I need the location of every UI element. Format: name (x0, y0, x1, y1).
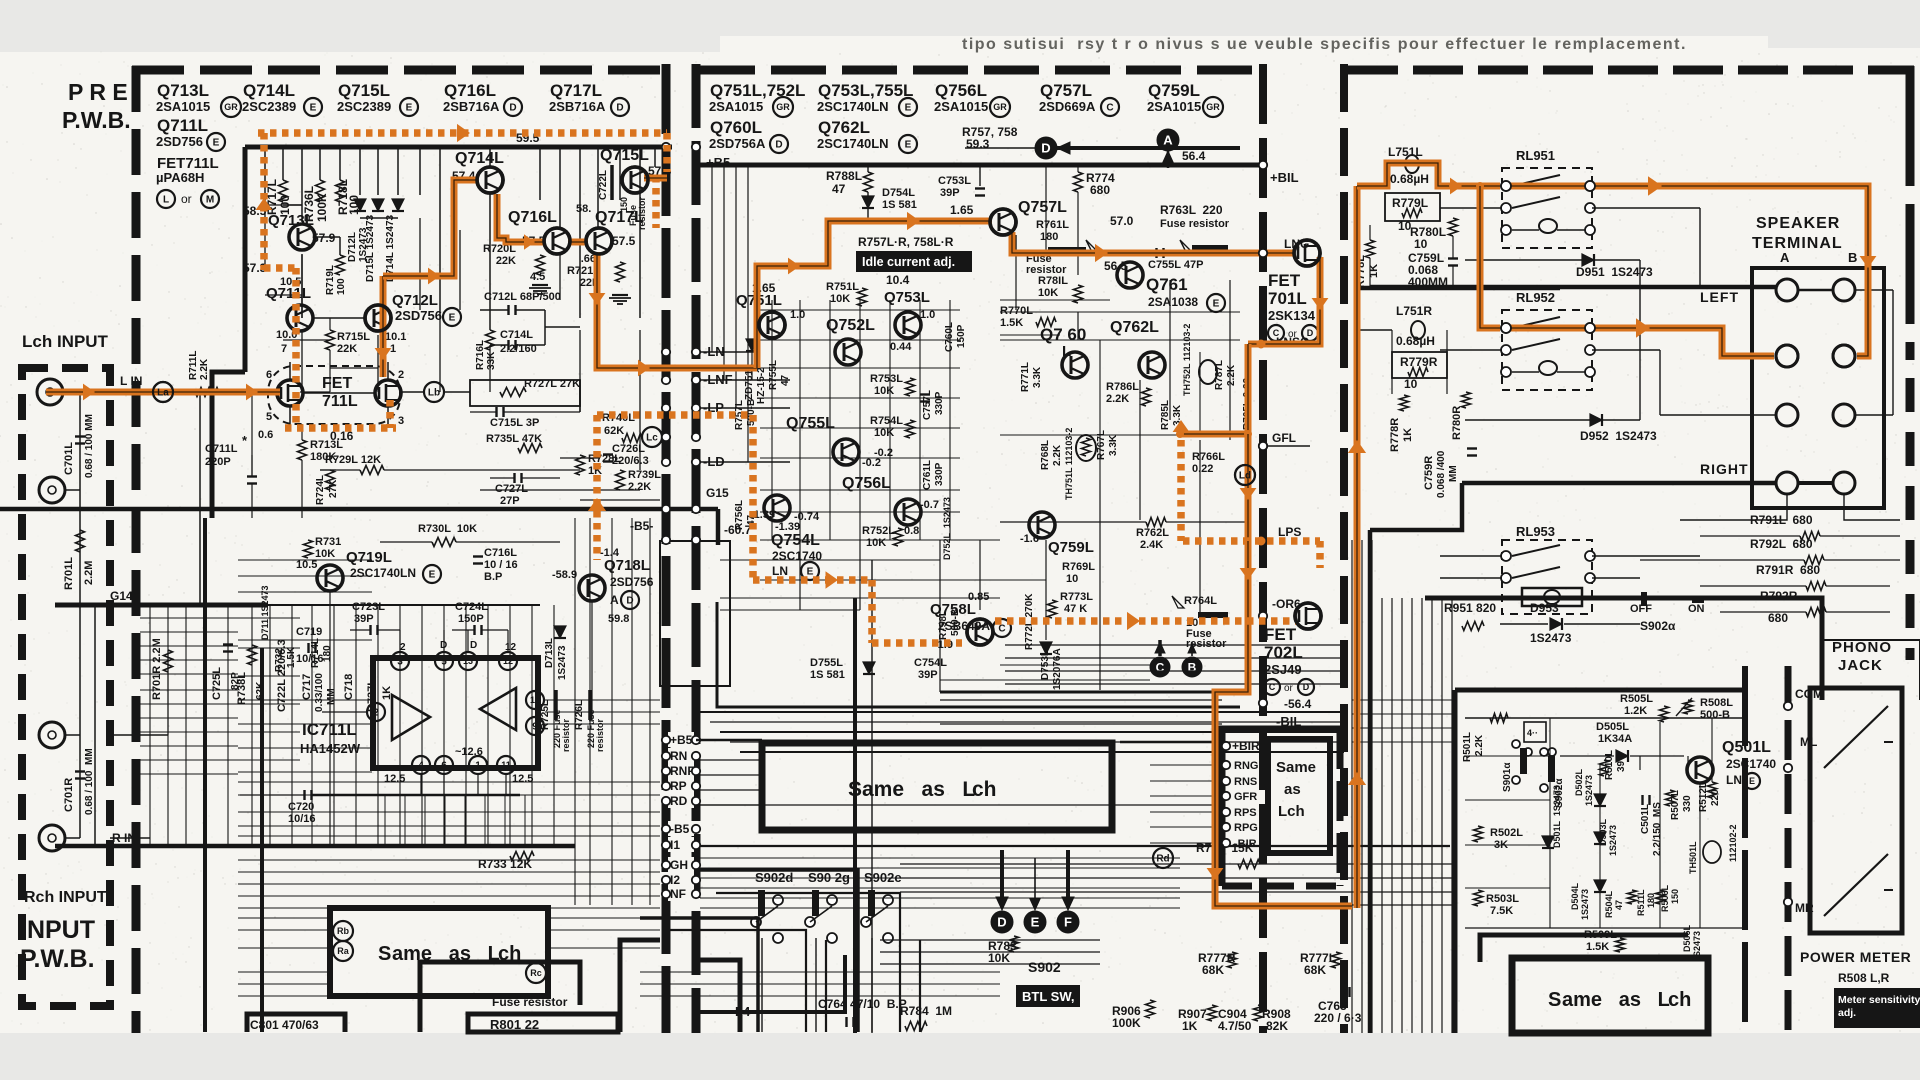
PRE P.W.B. border top (132, 66, 660, 75)
jack L1 (37, 379, 63, 405)
orange arrow mid1 (788, 258, 800, 275)
svg-text:0.68 / 100 MM: 0.68 / 100 MM (84, 748, 95, 815)
svg-text:6: 6 (441, 761, 447, 772)
wire (700, 897, 1180, 899)
svg-text:P.W.B.: P.W.B. (20, 945, 95, 973)
svg-text:2SA1015: 2SA1015 (934, 99, 988, 114)
orange path to right edge (1594, 186, 1868, 356)
RL952 contact restamp (1501, 323, 1511, 333)
wire (1369, 225, 1371, 240)
svg-text:+B5: +B5 (670, 733, 693, 747)
wire (700, 857, 1180, 859)
F terminal (1057, 911, 1079, 933)
svg-text:59.8: 59.8 (608, 613, 629, 625)
svg-text:0.44: 0.44 (890, 341, 912, 353)
transistor Q718L (579, 575, 605, 601)
svg-text:C724L: C724L (455, 601, 488, 613)
svg-text:C: C (998, 624, 1005, 635)
svg-text:NF: NF (670, 887, 686, 901)
svg-text:BTL SW,: BTL SW, (1022, 989, 1074, 1004)
svg-text:R508L: R508L (1700, 697, 1733, 709)
pin 13 (459, 652, 477, 670)
terminal M2 (1833, 404, 1855, 426)
svg-text:57.0: 57.0 (1110, 214, 1134, 228)
svg-text:I2: I2 (670, 873, 680, 887)
transistor Q756L (895, 499, 921, 525)
svg-text:1S2473: 1S2473 (1530, 631, 1572, 645)
orange FET dotted bottom (285, 424, 396, 432)
svg-text:R726L: R726L (574, 700, 585, 730)
terminal L2 (1833, 279, 1855, 301)
FET702L ring restamp (1295, 603, 1321, 629)
svg-text:Q714L: Q714L (455, 150, 504, 167)
svg-text:R730L 10K: R730L 10K (418, 523, 477, 535)
relay blade RL953a (1512, 545, 1560, 556)
wire (1639, 756, 1641, 770)
wire thick (1368, 530, 1373, 1033)
wire pin2 (322, 711, 367, 713)
phono frame (1700, 598, 1822, 700)
svg-text:Q751L,752L: Q751L,752L (710, 81, 805, 100)
pin 3 (391, 652, 409, 670)
svg-text:as: as (1284, 781, 1301, 798)
wire (149, 605, 151, 846)
svg-text:D754L: D754L (882, 187, 915, 199)
svg-text:E: E (213, 138, 220, 149)
svg-text:C718: C718 (343, 674, 355, 700)
diode D712L (354, 199, 366, 211)
svg-text:C754L: C754L (914, 657, 947, 669)
wire (333, 605, 335, 846)
transistor Q759L (1029, 512, 1055, 538)
svg-text:2SC1740LN: 2SC1740LN (817, 136, 889, 151)
svg-text:59.3: 59.3 (966, 137, 990, 151)
svg-text:Q757L: Q757L (1018, 199, 1067, 216)
svg-text:0.068 /400: 0.068 /400 (1436, 450, 1447, 498)
wire thick (1370, 483, 1462, 530)
svg-text:resistor: resistor (637, 196, 647, 230)
svg-text:2SD756: 2SD756 (395, 308, 442, 323)
svg-text:3.3K: 3.3K (1108, 434, 1119, 456)
wire (539, 147, 541, 200)
switch S901a (1520, 748, 1527, 774)
wire -BIL rail (940, 691, 1246, 694)
resistor R730L (432, 538, 456, 547)
meter bus (1785, 666, 1792, 1033)
svg-text:R724L: R724L (315, 475, 326, 505)
transistor Q715L (622, 167, 648, 193)
wire (282, 147, 284, 180)
orange arrow RL952 (1636, 318, 1650, 338)
Same as Lch box right (1268, 739, 1330, 853)
svg-text:-1.4: -1.4 (600, 547, 620, 559)
svg-text:Idle current adj.: Idle current adj. (862, 255, 955, 269)
wire (397, 147, 399, 195)
orange input line (46, 389, 280, 396)
trim 4-11 (1524, 722, 1546, 742)
pin 11 (497, 756, 515, 774)
wire FET drains (289, 362, 291, 380)
B terminal (1182, 657, 1202, 677)
resistor R726L (588, 690, 592, 720)
node (662, 536, 670, 544)
svg-text:RPG: RPG (1234, 822, 1258, 834)
svg-text:R740L: R740L (602, 412, 635, 424)
svg-text:27P: 27P (500, 495, 520, 507)
svg-text:C727L: C727L (495, 483, 528, 495)
svg-text:47: 47 (780, 374, 791, 386)
svg-text:C801 470/63: C801 470/63 (250, 1018, 319, 1032)
svg-text:5: 5 (441, 657, 447, 668)
svg-text:C720: C720 (288, 801, 314, 813)
wires PRE verticals long (264, 205, 266, 268)
wire (283, 204, 302, 206)
svg-text:47: 47 (832, 182, 846, 196)
svg-text:C711L: C711L (205, 443, 238, 455)
svg-text:Rc: Rc (530, 968, 542, 978)
jack R2 (39, 825, 65, 851)
D terminal (991, 911, 1013, 933)
svg-text:S902: S902 (1028, 959, 1061, 975)
wire (199, 392, 201, 605)
svg-text:2SD756A: 2SD756A (709, 136, 766, 151)
svg-text:0.68µH: 0.68µH (1390, 172, 1429, 186)
orange path GFL junction (1180, 431, 1248, 438)
svg-text:Q755L: Q755L (786, 415, 835, 432)
wire (1077, 312, 1079, 340)
orange arrow Q716 (524, 234, 535, 249)
switch blades S902 (756, 906, 778, 922)
svg-text:R713L: R713L (310, 439, 343, 451)
wire (238, 871, 660, 873)
svg-text:G15: G15 (706, 486, 729, 500)
svg-text:R801 22: R801 22 (490, 1017, 539, 1032)
resistor R716L (486, 330, 495, 350)
svg-text:2.2K: 2.2K (628, 481, 651, 493)
svg-text:A: A (610, 593, 619, 607)
wire (871, 560, 873, 1033)
svg-text:180: 180 (1646, 893, 1656, 908)
svg-text:Fuse resistor: Fuse resistor (1160, 218, 1230, 230)
svg-text:R768L: R768L (1040, 440, 1051, 470)
svg-text:220/6.3: 220/6.3 (612, 455, 649, 467)
wire thick (260, 648, 264, 1032)
svg-text:0.68 / 100 MM: 0.68 / 100 MM (84, 414, 95, 478)
svg-text:D713L: D713L (544, 638, 555, 668)
svg-text:10: 10 (1066, 573, 1078, 585)
svg-text:3: 3 (398, 415, 404, 427)
Q712L ring restamp (365, 305, 391, 331)
svg-text:B.P: B.P (484, 571, 502, 583)
terminal R1 (1776, 472, 1798, 494)
wire (1077, 165, 1079, 172)
svg-text:Ld: Ld (1239, 471, 1251, 482)
svg-text:1S 581: 1S 581 (810, 669, 845, 681)
svg-text:150P: 150P (956, 324, 967, 348)
svg-text:2SJ49: 2SJ49 (1264, 662, 1302, 677)
wires left-center grid (140, 617, 238, 619)
svg-text:57.9: 57.9 (312, 231, 336, 245)
svg-text:2SC2389: 2SC2389 (337, 99, 391, 114)
svg-text:701L: 701L (1268, 289, 1307, 308)
svg-text:2SA1015: 2SA1015 (156, 99, 210, 114)
wire (443, 605, 445, 846)
svg-text:or: or (1284, 683, 1294, 694)
svg-text:330P: 330P (934, 462, 945, 486)
svg-text:711L: 711L (322, 393, 358, 410)
wire (227, 605, 229, 846)
svg-text:3.3K: 3.3K (1032, 366, 1043, 388)
D terminal mid (1035, 137, 1057, 159)
svg-text:E: E (1031, 915, 1040, 930)
svg-text:500-B: 500-B (1700, 709, 1730, 721)
wires mid right mesh (1000, 311, 1240, 313)
svg-text:RN: RN (670, 749, 687, 763)
svg-text:1: 1 (475, 761, 481, 772)
transistor Q760L (1062, 352, 1088, 378)
orange arrow dotted FET702 (1127, 612, 1140, 630)
svg-text:D501L 1S2473: D501L 1S2473 (1552, 785, 1562, 848)
svg-text:2.2K: 2.2K (199, 358, 210, 380)
resistor R713L (298, 440, 307, 460)
svg-text:2SC2389: 2SC2389 (242, 99, 296, 114)
svg-text:R756L: R756L (734, 500, 745, 530)
label E arrow (1034, 858, 1036, 905)
svg-text:6: 6 (266, 369, 272, 381)
svg-text:Lch INPUT: Lch INPUT (22, 332, 109, 351)
speaker wires down (1680, 494, 1787, 520)
svg-text:TERMINAL: TERMINAL (1752, 235, 1843, 252)
node LNG restamp (1259, 249, 1267, 257)
svg-text:R715L: R715L (337, 331, 370, 343)
svg-text:10.4: 10.4 (886, 273, 910, 287)
svg-text:R778R: R778R (1389, 418, 1401, 452)
Q501L transistor (1687, 757, 1713, 783)
svg-text:0.33/100: 0.33/100 (314, 673, 325, 712)
terminal M1 (1776, 404, 1798, 426)
svg-text:R762L: R762L (1136, 527, 1169, 539)
svg-text:22K: 22K (337, 343, 357, 355)
orange branch RL952 (1480, 186, 1500, 328)
svg-text:µPA68H: µPA68H (156, 170, 204, 185)
svg-text:FET: FET (322, 375, 352, 392)
wire RL952 row2 (1440, 349, 1502, 351)
PM mesh (1465, 755, 1550, 757)
orange path Ld down (1245, 434, 1252, 541)
wire thick (418, 960, 423, 1032)
orange path LNSO down (1245, 344, 1252, 434)
input P.W.B. border (22, 368, 110, 1006)
resistor R783 (1010, 936, 1019, 952)
svg-text:0.68µH: 0.68µH (1396, 334, 1435, 348)
svg-text:C719: C719 (296, 626, 322, 638)
svg-text:E: E (905, 103, 912, 114)
svg-text:Lc: Lc (646, 433, 658, 444)
wire (359, 147, 361, 195)
wire (597, 147, 599, 227)
wire (700, 907, 1180, 909)
resistor R733 (510, 852, 534, 861)
svg-text:GR: GR (224, 102, 238, 112)
orange return vertical (1354, 186, 1361, 908)
orange path Q712 to Q714 (380, 276, 387, 377)
svg-text:220P: 220P (205, 456, 231, 468)
wire (559, 147, 561, 227)
orange path RL952 to A (1594, 328, 1774, 356)
svg-text:C717: C717 (301, 674, 313, 700)
wires bottom of mid (880, 939, 1100, 941)
svg-text:39: 39 (1616, 760, 1627, 772)
svg-text:68K: 68K (1202, 963, 1224, 977)
svg-text:E: E (1749, 776, 1755, 786)
svg-text:INPUT: INPUT (20, 916, 95, 944)
svg-text:C764 47/10 B.P: C764 47/10 B.P (818, 997, 907, 1011)
RL951 contact restamp (1501, 181, 1511, 191)
svg-text:D951 1S2473: D951 1S2473 (1576, 265, 1653, 279)
wire (291, 605, 293, 846)
svg-text:R727L 27K: R727L 27K (524, 378, 580, 390)
wire (269, 605, 271, 846)
svg-text:C716L: C716L (484, 547, 517, 559)
orange dotted LPS down (1316, 541, 1324, 568)
svg-text:D: D (775, 140, 782, 151)
wire (1000, 521, 1146, 523)
svg-text:R761L: R761L (1036, 219, 1069, 231)
Rb node (333, 921, 353, 941)
resistor R778L (1366, 240, 1375, 258)
wire FET sources (289, 406, 291, 428)
svg-text:2SC1740: 2SC1740 (772, 549, 822, 563)
svg-text:Q716L: Q716L (444, 81, 496, 100)
svg-text:D505L: D505L (1596, 721, 1629, 733)
wire (965, 147, 1035, 149)
node RN (668, 748, 694, 763)
pin 5 (435, 652, 453, 670)
transistor Q752L (835, 339, 861, 365)
svg-text:330: 330 (1682, 795, 1693, 812)
svg-text:LN: LN (772, 564, 788, 578)
label E Q711L (207, 133, 225, 151)
capacitor C755L (1155, 248, 1157, 258)
svg-text:RNS: RNS (1234, 776, 1257, 788)
svg-text:RD: RD (670, 794, 688, 808)
svg-text:180: 180 (322, 645, 333, 662)
wire thick L4 area (700, 955, 845, 1012)
svg-text:702L: 702L (1264, 643, 1303, 662)
wire (65, 489, 80, 491)
svg-text:150P: 150P (458, 613, 484, 625)
svg-text:1S2473: 1S2473 (1608, 825, 1618, 856)
wire (487, 605, 489, 846)
orange arrow to FET701 (1095, 244, 1108, 262)
svg-text:RNG: RNG (1234, 760, 1258, 772)
wire (302, 392, 375, 394)
label E Q754L (801, 562, 819, 580)
svg-text:L: L (163, 195, 169, 206)
svg-text:10K: 10K (1038, 287, 1058, 299)
resistor R724L (326, 470, 335, 490)
wire (238, 825, 660, 827)
capacitor C726L (603, 453, 613, 455)
svg-text:4: 4 (418, 761, 424, 772)
svg-text:E: E (449, 313, 456, 324)
svg-text:Rb: Rb (337, 926, 349, 936)
transistor Q713L (289, 224, 315, 250)
svg-text:F: F (1064, 915, 1072, 930)
svg-text:R701R 2.2M: R701R 2.2M (151, 638, 163, 700)
svg-text:5: 5 (266, 411, 272, 423)
PRE inner frame top (245, 145, 672, 150)
wire (238, 794, 660, 796)
orange dotted Q754 loop top (597, 411, 753, 419)
IC711 right wires (545, 699, 660, 701)
orange arrow up left (256, 198, 273, 210)
svg-text:9: 9 (532, 722, 538, 733)
ground rail G15 (0, 507, 718, 512)
svg-text:10K: 10K (874, 427, 894, 439)
relay fuse box 953 (1522, 588, 1582, 606)
svg-text:D755L: D755L (810, 657, 843, 669)
svg-text:R769L: R769L (1062, 561, 1095, 573)
wire mesh right mid (1005, 644, 1340, 646)
svg-text:R731: R731 (315, 536, 341, 548)
svg-text:R711L: R711L (188, 351, 199, 380)
output stage box (717, 602, 1240, 707)
C terminal (1150, 657, 1170, 677)
svg-text:R714L: R714L (310, 638, 321, 668)
svg-text:4.7/50: 4.7/50 (1218, 1019, 1252, 1033)
diode D714L (392, 199, 404, 211)
svg-text:D504L: D504L (1570, 882, 1580, 910)
Rc node (526, 963, 546, 983)
LEFT line (1370, 285, 1776, 290)
Same as Lch box bottom-right (1512, 958, 1708, 1033)
node (662, 348, 670, 356)
svg-text:Q715L: Q715L (338, 81, 390, 100)
svg-text:LEFT: LEFT (1700, 289, 1739, 305)
transistor Q757L mid (990, 209, 1016, 235)
FET 701L symbol (1294, 240, 1320, 266)
transistor Q762L (1139, 352, 1165, 378)
wire (319, 147, 321, 180)
svg-text:R753L: R753L (870, 373, 903, 385)
wire (301, 424, 303, 440)
svg-text:Q711L: Q711L (157, 116, 208, 135)
svg-text:D: D (509, 103, 516, 114)
PM frame left (1453, 690, 1458, 1033)
orange arrow mid2 (907, 212, 920, 230)
node (662, 433, 670, 441)
diode D713L (554, 626, 566, 638)
op-amp B (480, 688, 516, 730)
svg-text:680: 680 (1090, 183, 1110, 197)
meter needle 1 (1824, 706, 1888, 768)
svg-text:D711 1S2473: D711 1S2473 (260, 585, 270, 640)
wires left-bottom extra (238, 917, 330, 919)
svg-text:GH: GH (670, 858, 688, 872)
wire (553, 605, 555, 846)
transistor Q714L (477, 167, 503, 193)
svg-text:Q713L: Q713L (157, 81, 209, 100)
wire (355, 605, 357, 846)
svg-text:10K: 10K (315, 548, 335, 560)
svg-text:R508 L,R: R508 L,R (1838, 971, 1890, 985)
svg-text:Fuse resistor: Fuse resistor (492, 995, 568, 1009)
label C Q757L (1101, 98, 1119, 116)
wire (329, 318, 331, 330)
svg-text:GFL: GFL (1272, 431, 1296, 445)
wires into box (696, 759, 762, 761)
